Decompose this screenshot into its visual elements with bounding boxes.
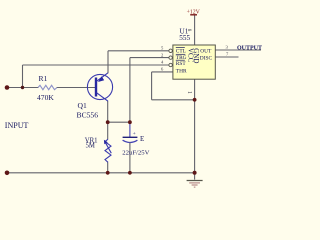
- pin 8 number (VCC): [186, 29, 191, 32]
- junction ground rail: [193, 171, 197, 175]
- pin bubble RST pin4: [169, 63, 172, 66]
- wire: OUT pin3 to OUTPUT label: [215, 49, 261, 51]
- node label OUTPUT: [237, 45, 262, 51]
- pin number 4: [161, 59, 164, 64]
- capacitor E 22uF/25V (polarized): [122, 122, 149, 173]
- junction riser/input wire: [21, 86, 24, 89]
- svg-text:555: 555: [179, 34, 190, 42]
- svg-text:R1: R1: [39, 74, 48, 83]
- wire: VR1 bottom lead: [107, 162, 109, 173]
- pin bubble CTL pin5: [169, 49, 172, 52]
- junction VR1 bottom node: [106, 171, 110, 175]
- node bottom-left port dot: [5, 171, 10, 176]
- pin name CTL: [176, 48, 186, 55]
- transistor Q1 BC556: [77, 73, 113, 120]
- svg-text:Q1: Q1: [78, 101, 87, 110]
- svg-text:GND: GND: [192, 48, 200, 63]
- wire: THR pin6 horizontal: [152, 71, 173, 73]
- variable resistor VR1: [85, 138, 112, 163]
- wire: +12V feed to VCC pin 8: [194, 15, 196, 45]
- pin number 7: [226, 52, 229, 57]
- svg-text:CTL: CTL: [176, 49, 186, 55]
- svg-text:INPUT: INPUT: [5, 121, 29, 130]
- svg-text:DISC: DISC: [200, 55, 213, 61]
- pin bubble TRG pin2: [169, 56, 172, 59]
- resistor R1: [37, 74, 57, 102]
- svg-text:+: +: [133, 131, 136, 137]
- svg-text:5M: 5M: [86, 143, 95, 150]
- svg-text:RST: RST: [176, 61, 187, 67]
- svg-text:+12V: +12V: [187, 10, 201, 16]
- wire: TRG vertical down to cap node: [129, 58, 131, 123]
- wire: riser from input wire up: [22, 65, 24, 88]
- pin number 3: [226, 44, 229, 49]
- wire: main input wire left segment: [7, 87, 39, 89]
- junction VR1 top node: [106, 120, 110, 124]
- pin name THR: [176, 68, 187, 74]
- junction cap top node: [128, 120, 132, 124]
- pin name DISC: [200, 55, 213, 61]
- svg-text:E: E: [140, 135, 144, 143]
- pin name TRG: [176, 54, 187, 61]
- junction THR/GND net: [193, 98, 197, 102]
- op-amp/timer U1 555 body: [173, 28, 215, 80]
- node label INPUT: [5, 121, 29, 130]
- node INPUT port dot: [5, 85, 10, 90]
- wire: main input wire right segment to Q1 base: [57, 87, 97, 89]
- pin number 5: [161, 45, 164, 50]
- wire: mid wire between VR1 node and cap node: [108, 121, 130, 123]
- wire: VR1 top lead: [107, 122, 109, 139]
- pin number 6: [161, 67, 164, 72]
- wire: CTL to Q1 emitter vertical: [107, 51, 109, 73]
- power +12V bar: [187, 10, 201, 16]
- pin name OUT: [200, 48, 212, 54]
- wire: RST rail y=65 to pin 4: [23, 64, 170, 66]
- ground (earth) symbol: [187, 173, 203, 187]
- hidden pin name GND (rotated): [192, 48, 200, 63]
- wire: THR to ground-net horizontal: [152, 99, 195, 101]
- junction cap bottom node: [128, 171, 132, 175]
- wire: Q1 collector vertical: [107, 101, 109, 122]
- wire: GND pin1 vertical down to bottom rail: [194, 79, 196, 173]
- wire: bottom rail: [7, 172, 195, 174]
- hidden pin name VCC (rotated): [187, 48, 195, 63]
- wire: THR vertical: [151, 72, 153, 100]
- wire: DISC pin7 stub: [215, 56, 238, 58]
- svg-text:1: 1: [186, 91, 192, 94]
- svg-text:470K: 470K: [37, 93, 54, 102]
- sheet background: [0, 0, 263, 192]
- svg-text:OUT: OUT: [200, 48, 212, 54]
- wire: TRG pin2 horizontal: [130, 57, 169, 59]
- wire: CTL pin5 horizontal: [108, 50, 169, 52]
- svg-text:BC556: BC556: [77, 111, 99, 120]
- svg-text:THR: THR: [176, 68, 187, 74]
- pin number 2: [161, 52, 164, 57]
- svg-text:OUTPUT: OUTPUT: [237, 45, 262, 51]
- pin 1 number (GND): [186, 91, 192, 94]
- pin name RST: [176, 60, 187, 67]
- svg-text:22uF/25V: 22uF/25V: [122, 150, 149, 157]
